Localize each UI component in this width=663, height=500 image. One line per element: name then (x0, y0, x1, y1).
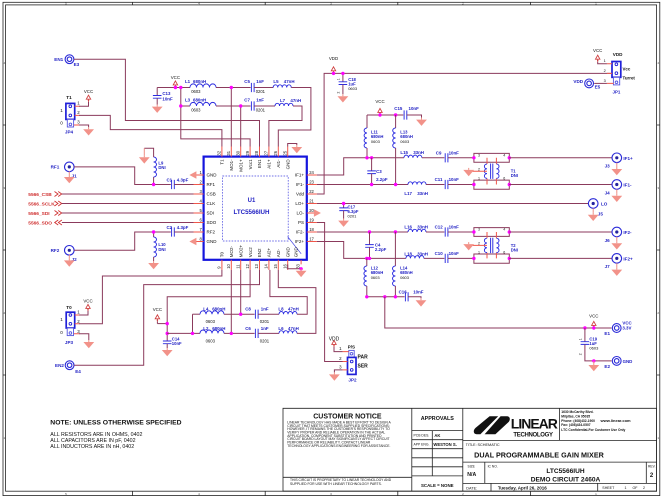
svg-text:2: 2 (643, 486, 645, 490)
svg-text:RF1: RF1 (51, 165, 60, 170)
svg-text:47nH: 47nH (284, 79, 295, 84)
svg-text:IF2+: IF2+ (623, 256, 633, 261)
ground at T1 pin2 (463, 168, 474, 176)
svg-text:11: 11 (235, 264, 240, 269)
junction rail L14 (394, 295, 397, 298)
svg-text:www.linear.com: www.linear.com (600, 418, 632, 423)
ground at T2 pin2 (463, 242, 474, 250)
junction IF2+ L12 (365, 257, 368, 260)
svg-text:IF1-: IF1- (296, 182, 305, 187)
svg-text:6: 6 (503, 177, 505, 181)
ground at C14 (162, 348, 173, 356)
wire VCC elbow to vertical (157, 323, 167, 325)
svg-text:WESTON S.: WESTON S. (433, 442, 456, 447)
junction row2 left vert (179, 104, 182, 107)
wire row L3 (181, 105, 190, 107)
inductor L16 33nH (404, 225, 428, 232)
wire C6 to L6 (258, 332, 279, 334)
inductor L6 47nH (278, 326, 298, 333)
svg-text:13: 13 (254, 263, 259, 268)
svg-text:MO2-: MO2- (229, 245, 234, 257)
capacitor C19 1uF (579, 328, 612, 361)
svg-text:T1: T1 (220, 159, 225, 165)
ground arrow pin1 (189, 171, 196, 178)
svg-text:TITLE:: TITLE: (466, 443, 477, 447)
junction L9/C1 (152, 183, 155, 186)
svg-text:AI2+: AI2+ (267, 247, 272, 257)
wire IF1- pin23 (317, 184, 408, 186)
wire Vcc1 feed (181, 88, 250, 147)
capacitor C12 10nF (435, 225, 474, 237)
svg-text:N/A: N/A (467, 472, 476, 478)
svg-text:EN1: EN1 (54, 57, 63, 62)
inductor L7 47nH (275, 98, 301, 106)
junction rowB2 pin10 (230, 332, 233, 335)
svg-text:SIZE: SIZE (468, 464, 476, 468)
svg-text:1: 1 (579, 338, 583, 340)
svg-text:10nF: 10nF (162, 97, 173, 102)
svg-text:PCB DES.: PCB DES. (414, 434, 430, 438)
wire EN1 net E3 to pin28 (74, 59, 260, 146)
wire T0 net JP3 pin2 to pin9 (79, 270, 222, 324)
capacitor C15 10nF (394, 106, 421, 119)
wire CSB (62, 193, 194, 195)
junction T2 corners (472, 230, 511, 260)
svg-text:0: 0 (60, 330, 63, 335)
svg-text:0603: 0603 (206, 319, 216, 324)
junction pin33 (299, 267, 302, 270)
svg-text:C12: C12 (435, 225, 444, 230)
svg-text:Milpitas, CA 95035: Milpitas, CA 95035 (561, 414, 590, 418)
svg-text:AI1+: AI1+ (267, 159, 272, 169)
svg-text:L15: L15 (400, 150, 408, 155)
svg-text:Phone: (408)432-1900: Phone: (408)432-1900 (561, 419, 595, 423)
svg-text:LINEAR: LINEAR (511, 415, 558, 431)
transformer T1 DNI (469, 153, 518, 189)
svg-text:VDD: VDD (329, 56, 338, 61)
power VCC at JP3 pin1 (79, 298, 93, 315)
svg-text:VCC: VCC (593, 48, 602, 53)
svg-text:1: 1 (478, 177, 480, 181)
wire L4 to C8 (224, 313, 255, 315)
jumper JP4 (60, 95, 80, 135)
transformer T2 DNI (469, 228, 518, 264)
power VDD at JP2 pin1 (329, 336, 343, 351)
svg-text:4.3pF: 4.3pF (177, 178, 189, 183)
svg-text:RF2: RF2 (51, 248, 60, 253)
svg-text:VDD: VDD (573, 79, 583, 84)
svg-text:3: 3 (478, 153, 480, 157)
svg-text:680nH: 680nH (212, 326, 225, 331)
svg-text:3: 3 (604, 79, 606, 83)
svg-text:0603: 0603 (400, 275, 410, 280)
svg-text:Tuesday, April 26, 2016: Tuesday, April 26, 2016 (498, 486, 547, 491)
power VCC at E1 (589, 313, 598, 328)
svg-text:1: 1 (337, 78, 341, 80)
svg-text:31: 31 (226, 150, 231, 155)
capacitor C5 1nF (244, 79, 265, 94)
wire T1 net JP4 pin2 to pin32 (79, 115, 222, 146)
svg-text:1: 1 (60, 317, 63, 322)
svg-text:C9: C9 (436, 150, 442, 155)
capacitor C8 1nF (245, 306, 270, 324)
svg-text:C16: C16 (399, 289, 408, 294)
turret E2 GND (604, 357, 632, 370)
wire T1 to J3 (509, 157, 611, 159)
capacitor C9 10nF (436, 150, 474, 162)
inductor L10 DNI (154, 232, 167, 261)
U1 pin names (207, 159, 305, 258)
svg-text:LO+: LO+ (295, 201, 304, 206)
svg-text:0603: 0603 (191, 89, 201, 94)
svg-text:21: 21 (309, 198, 314, 203)
svg-text:REV.: REV. (648, 464, 656, 468)
svg-text:1nF: 1nF (261, 326, 269, 331)
junction IF2- C4 (368, 230, 371, 233)
svg-text:0201: 0201 (256, 89, 266, 94)
svg-text:P/S: P/S (348, 345, 355, 350)
svg-text:VCC: VCC (153, 307, 162, 312)
wire LO pin21 to J5 (317, 203, 588, 205)
svg-text:Turret: Turret (623, 75, 636, 80)
svg-text:SDO: SDO (207, 220, 217, 225)
svg-text:AI2-: AI2- (276, 248, 281, 257)
wire IF2- pin18 (317, 231, 408, 233)
svg-text:10nF: 10nF (413, 289, 424, 294)
wire VCC to E1 (385, 297, 612, 328)
capacitor C3 2.2pF (367, 158, 388, 185)
wire row L4 (193, 313, 201, 315)
svg-text:0201: 0201 (348, 213, 358, 218)
svg-text:AK: AK (434, 433, 440, 438)
svg-text:RF2: RF2 (207, 230, 216, 235)
svg-text:14: 14 (264, 263, 269, 268)
svg-text:1: 1 (604, 59, 606, 63)
title rows (466, 443, 656, 490)
junction IF2- L14 (394, 230, 397, 233)
power VDD at rail (329, 56, 338, 74)
wire L3 to C7 (216, 105, 251, 107)
svg-text:E5: E5 (595, 85, 601, 90)
power VCC at JP4 pin1 (79, 89, 93, 106)
junction C18 (341, 72, 344, 75)
svg-text:C1: C1 (167, 178, 173, 183)
svg-text:JP2: JP2 (348, 378, 357, 383)
svg-text:E1: E1 (604, 331, 610, 336)
junction VCC elbow (166, 322, 169, 325)
svg-text:IF1+: IF1+ (295, 173, 305, 178)
svg-text:OF: OF (633, 486, 639, 490)
wire pin10 MO2- (230, 270, 232, 334)
wire pin11 MO2+ (240, 270, 242, 314)
wire L18 to C10 (424, 257, 445, 259)
ground at J2 (64, 255, 75, 267)
svg-text:L18: L18 (404, 251, 412, 256)
inductor L1 680nH (185, 79, 216, 94)
inductor L14 680nH (393, 232, 413, 297)
svg-text:T0: T0 (220, 251, 225, 257)
svg-text:26: 26 (273, 150, 278, 155)
capacitor C1 4.3pF (167, 178, 194, 190)
svg-text:J7: J7 (605, 264, 611, 269)
connector J6 IF2- (605, 227, 632, 243)
capacitor C4 2.2pF (365, 232, 386, 258)
svg-text:1nF: 1nF (256, 98, 264, 103)
inductor L8 47nH (278, 306, 298, 314)
capacitor C6 1nF (245, 326, 270, 343)
svg-text:17: 17 (309, 236, 314, 241)
jumper JP2 (339, 345, 368, 383)
svg-text:0603: 0603 (371, 139, 381, 144)
svg-text:2: 2 (579, 353, 583, 355)
inductor L4 680nH (200, 306, 225, 324)
wire E5 to JP1 pin3 (594, 82, 607, 84)
ground at E2 wire (588, 361, 599, 371)
svg-text:680nH: 680nH (193, 98, 206, 103)
wire rows join left (192, 314, 194, 333)
wire C7 to L7 (254, 105, 275, 107)
svg-text:10nF: 10nF (409, 106, 420, 111)
svg-text:RF1: RF1 (207, 182, 216, 187)
svg-text:APP ENG.: APP ENG. (414, 443, 430, 447)
svg-text:L17: L17 (404, 191, 412, 196)
svg-text:U1: U1 (248, 198, 256, 204)
ground at C16 (416, 298, 427, 306)
junction rowB1 pin11 (239, 313, 242, 316)
svg-text:E4: E4 (75, 369, 81, 374)
svg-text:Fax: (408)434-0507: Fax: (408)434-0507 (561, 423, 590, 427)
svg-text:33nH: 33nH (417, 251, 428, 256)
junction IF1- L13 (394, 183, 397, 186)
wire VCC vertical and Vcc2 feed (167, 270, 250, 341)
wire JP4 pin3 to ground (79, 125, 94, 136)
wire VCC rail bottom L12/L14 (367, 296, 405, 298)
connector J3 IF1+ (605, 153, 633, 169)
ground at J1 (64, 171, 75, 183)
wire SDO (62, 222, 194, 224)
svg-text:JP3: JP3 (65, 340, 74, 345)
wire L7 to pin27 AI1+ (269, 106, 302, 147)
svg-text:SUPPLIED FOR USE WITH LINEAR T: SUPPLIED FOR USE WITH LINEAR TECHNOLOGY … (290, 482, 382, 486)
svg-text:VDD: VDD (329, 336, 340, 342)
svg-text:0603: 0603 (371, 275, 381, 280)
svg-text:L16: L16 (404, 225, 412, 230)
wire EN2 net E4 to pin13 (74, 270, 259, 365)
svg-text:J6: J6 (605, 238, 611, 243)
svg-text:SCALE = NONE: SCALE = NONE (421, 483, 454, 488)
wire L1 to C5 (216, 87, 251, 89)
wire T1 to J4 (509, 184, 611, 186)
svg-text:1: 1 (60, 108, 63, 113)
capacitor C14 10nF (163, 337, 182, 348)
svg-text:PS: PS (298, 220, 304, 225)
wire L16 to C12 (426, 231, 444, 233)
svg-text:DNI: DNI (511, 173, 518, 178)
svg-text:VCC: VCC (83, 298, 92, 303)
ground at C13 (152, 105, 163, 113)
svg-text:DNI: DNI (158, 165, 165, 170)
connector J1 RF1 (51, 162, 78, 179)
junction IF1+ L11 (365, 156, 368, 159)
wire L5 to pin26 AI1- (278, 88, 311, 147)
svg-text:C5: C5 (244, 79, 250, 84)
svg-text:0201: 0201 (260, 319, 270, 324)
customer notice text (287, 414, 391, 486)
svg-text:1630 McCarthy Blvd.: 1630 McCarthy Blvd. (561, 410, 593, 414)
ground at pin16/33 (296, 269, 307, 277)
capacitor C10 10nF (435, 251, 474, 263)
svg-text:23: 23 (309, 179, 314, 184)
svg-text:SDI: SDI (207, 211, 215, 216)
junction L10/C2 (152, 230, 155, 233)
svg-text:C13: C13 (162, 91, 171, 96)
junction C17 (342, 202, 345, 205)
inductor L12 680nH (364, 258, 383, 296)
svg-text:47nH: 47nH (288, 306, 299, 311)
wire VCC rail L11/L13 (367, 114, 403, 116)
capacitor C13 10nF (153, 88, 173, 105)
inductor L2 680nH (200, 326, 225, 343)
svg-text:EN1: EN1 (257, 159, 262, 168)
svg-text:GND: GND (285, 246, 290, 257)
svg-text:VCC: VCC (84, 89, 93, 94)
svg-text:DATE:: DATE: (466, 486, 477, 490)
svg-text:4.3pF: 4.3pF (177, 225, 189, 230)
power VCC at C14 (153, 307, 162, 323)
svg-text:Vcc2: Vcc2 (248, 247, 253, 258)
svg-text:IC NO.: IC NO. (488, 464, 498, 468)
wire RF2 J2 to C2 (74, 232, 171, 250)
inductor L9 DNI (144, 148, 165, 184)
wire IF2+ pin17 (317, 242, 406, 259)
svg-text:Vdd: Vdd (296, 192, 305, 197)
junction row1 pin31 (230, 86, 233, 89)
svg-text:VCC: VCC (589, 313, 598, 318)
svg-text:L8: L8 (278, 306, 284, 311)
svg-text:0603: 0603 (589, 346, 599, 351)
svg-text:C2: C2 (167, 225, 173, 230)
ground at J5 (588, 208, 599, 221)
svg-text:IF1-: IF1- (623, 183, 632, 188)
svg-text:CSB: CSB (207, 192, 216, 197)
svg-text:DUAL PROGRAMMABLE GAIN MIXER: DUAL PROGRAMMABLE GAIN MIXER (474, 451, 604, 460)
U1 pin stubs (194, 147, 317, 270)
turret E3 EN1 (54, 55, 79, 67)
wire row L1 (157, 87, 190, 89)
ground at J4 (611, 189, 622, 202)
ground at L10 (148, 261, 159, 269)
svg-text:VDD: VDD (613, 52, 623, 57)
svg-text:29: 29 (245, 150, 250, 155)
capacitor C18 1uF (337, 73, 358, 94)
junction IF2+ C4 (368, 257, 371, 260)
svg-text:12: 12 (245, 263, 250, 268)
svg-text:T0: T0 (66, 305, 72, 310)
svg-text:APPROVALS: APPROVALS (421, 416, 455, 422)
svg-text:SHEET: SHEET (602, 486, 615, 490)
svg-text:4: 4 (503, 153, 505, 157)
junction row1 VCC (174, 86, 177, 89)
ground at J7 (611, 263, 622, 276)
svg-text:ALL INDUCTORS ARE IN nH, 0402: ALL INDUCTORS ARE IN nH, 0402 (50, 444, 134, 450)
capacitor C2 4.3pF (167, 225, 194, 237)
svg-text:GND: GND (623, 359, 633, 364)
svg-text:MO2+: MO2+ (238, 244, 243, 257)
svg-text:GND: GND (294, 246, 299, 257)
svg-text:TECHNOLOGY APPLICATIONS ENGINE: TECHNOLOGY APPLICATIONS ENGINEERING FOR … (287, 444, 390, 448)
wire L17 to C11 (426, 184, 444, 186)
svg-text:0201: 0201 (260, 338, 270, 343)
svg-text:2.2pF: 2.2pF (375, 247, 387, 252)
ground at C17 (338, 219, 349, 227)
svg-text:30: 30 (235, 150, 240, 155)
svg-text:0: 0 (60, 120, 63, 125)
junction VDD arrow (332, 72, 335, 75)
svg-text:IF2-: IF2- (296, 230, 305, 235)
junction IF1- C3 (370, 183, 373, 186)
svg-text:J5: J5 (598, 212, 604, 217)
svg-text:LTC5566IUH: LTC5566IUH (234, 209, 271, 216)
wire PS pin19 to JP2 (317, 223, 348, 362)
connector J5 LO (588, 199, 607, 217)
wire T2 to J7 (509, 257, 611, 259)
svg-text:47nH: 47nH (290, 98, 301, 103)
wire C8 to L8 (258, 313, 279, 315)
svg-text:MO1+: MO1+ (238, 159, 243, 172)
wire VDD rail to JP1 and pin22 (317, 73, 612, 194)
ground at J6 (611, 237, 622, 250)
svg-text:20: 20 (309, 208, 314, 213)
inductor L18 33nH (404, 251, 428, 258)
svg-text:33nH: 33nH (417, 191, 428, 196)
svg-text:EN2: EN2 (257, 248, 262, 257)
turret E5 VDD (573, 79, 600, 90)
jumper JP1 (604, 52, 636, 95)
wire SDI (62, 212, 194, 214)
wire row L2 (167, 332, 200, 334)
svg-text:T1: T1 (66, 95, 72, 100)
wire JP3 pin3 to ground (79, 334, 94, 349)
svg-text:10nF: 10nF (172, 341, 182, 346)
power VCC at JP1 pin1 (593, 48, 607, 64)
ground arrow pin20 (314, 209, 321, 216)
svg-text:EN2: EN2 (55, 363, 64, 368)
net label 5566_SCLK (28, 201, 61, 207)
wire T2 to J6 (509, 231, 611, 233)
svg-text:47nH: 47nH (288, 326, 299, 331)
connector J4 IF1- (605, 180, 632, 196)
svg-text:18: 18 (309, 227, 314, 232)
svg-text:16: 16 (282, 263, 287, 268)
wire pin16 GND hook (288, 264, 301, 268)
net label 5566_SDI (28, 211, 61, 217)
ground at C18 (338, 94, 349, 102)
svg-text:JP1: JP1 (613, 90, 621, 95)
svg-text:680nH: 680nH (193, 79, 206, 84)
svg-text:NOTE: UNLESS OTHERWISE SPECIFI: NOTE: UNLESS OTHERWISE SPECIFIED (50, 419, 181, 426)
svg-text:5566_CSB: 5566_CSB (28, 192, 52, 198)
svg-text:J3: J3 (605, 164, 611, 169)
svg-text:32: 32 (217, 150, 222, 155)
jumper JP3 (60, 305, 80, 345)
junction rail L13 (394, 113, 397, 116)
svg-text:0603: 0603 (348, 86, 358, 91)
wire IF1+ pin24 (317, 158, 404, 175)
svg-text:SER: SER (358, 363, 369, 369)
turret E1 VCC 3.3V (604, 321, 632, 337)
wire L8 to pin14 AI2+ (270, 270, 307, 314)
junction rowB2 join (191, 332, 194, 335)
